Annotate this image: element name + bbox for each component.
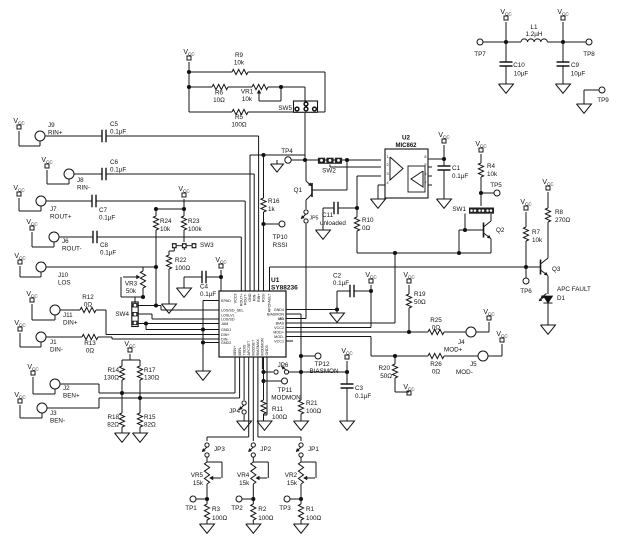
svg-text:JP2: JP2 xyxy=(260,446,271,453)
ground (R21) xyxy=(294,421,309,430)
node junction R7/Q3 base xyxy=(524,265,528,269)
svg-text:R3: R3 xyxy=(212,506,221,513)
svg-text:ROUT+: ROUT+ xyxy=(50,214,72,221)
svg-text:0Ω: 0Ω xyxy=(86,348,95,355)
resistor R16 1k xyxy=(261,155,280,291)
svg-text:3: 3 xyxy=(387,172,389,176)
svg-text:SW1: SW1 xyxy=(452,206,466,213)
svg-text:10µF: 10µF xyxy=(514,71,529,78)
svg-text:TP6: TP6 xyxy=(520,288,532,295)
svg-text:MODMON: MODMON xyxy=(271,395,301,402)
resistor R5 100ohm xyxy=(189,109,293,128)
svg-text:J3: J3 xyxy=(50,410,57,417)
svg-text:APC FAULT: APC FAULT xyxy=(557,286,591,293)
svg-text:0Ω: 0Ω xyxy=(432,325,441,332)
wire MODMON net xyxy=(262,357,263,369)
svg-text:R24: R24 xyxy=(160,218,172,225)
svg-text:JP4: JP4 xyxy=(229,408,240,415)
svg-text:1k: 1k xyxy=(268,206,276,213)
Vcc symbol (J5) xyxy=(488,331,508,356)
svg-text:R12: R12 xyxy=(82,294,94,301)
svg-text:0Ω: 0Ω xyxy=(84,302,93,309)
svg-text:D1: D1 xyxy=(557,295,566,302)
wire Q1 base xyxy=(346,160,348,190)
svg-text:J10: J10 xyxy=(58,272,69,279)
svg-text:RIN+: RIN+ xyxy=(48,130,63,137)
ground (TP4) xyxy=(271,160,284,172)
connector J8 RIN- with Vcc xyxy=(41,157,90,192)
svg-text:TP1: TP1 xyxy=(185,505,197,512)
wire VCC2 net xyxy=(286,291,371,328)
resistor R12 0ohm xyxy=(60,294,106,313)
Vcc symbol (C1) xyxy=(438,132,450,159)
connector J4 MOD+ xyxy=(444,327,476,354)
svg-text:0.1µF: 0.1µF xyxy=(99,215,115,222)
svg-text:BIAS: BIAS xyxy=(276,322,285,326)
ground (JP4) xyxy=(237,421,252,430)
svg-text:15k: 15k xyxy=(193,480,204,487)
svg-text:VCC1: VCC1 xyxy=(274,340,284,344)
resistor R15 82ohm xyxy=(137,413,156,433)
resistor R21 100ohm xyxy=(298,400,321,421)
ground (R11/GND3) xyxy=(257,421,272,430)
svg-text:MOD-: MOD- xyxy=(274,335,285,339)
node junction BIASMON/TP12 xyxy=(299,354,303,358)
svg-text:TP9: TP9 xyxy=(597,97,609,104)
test point TP7 xyxy=(474,39,506,58)
svg-text:C5: C5 xyxy=(110,121,119,128)
resistor R26 0ohm xyxy=(428,353,478,375)
svg-text:100Ω: 100Ω xyxy=(175,265,191,272)
svg-text:TP3: TP3 xyxy=(279,505,291,512)
svg-text:Q1: Q1 xyxy=(294,187,303,194)
svg-text:SW2: SW2 xyxy=(322,168,336,175)
svg-text:RSSI: RSSI xyxy=(273,242,288,249)
svg-text:U1: U1 xyxy=(271,277,280,284)
svg-text:100Ω: 100Ω xyxy=(306,408,322,415)
svg-text:C3: C3 xyxy=(355,385,364,392)
svg-text:R26: R26 xyxy=(430,361,442,368)
svg-text:BIASMAX: BIASMAX xyxy=(256,339,260,356)
wire GND3 xyxy=(264,357,268,415)
inductor L1 1.2uH xyxy=(506,24,563,42)
Vcc symbol (R20) xyxy=(395,384,415,395)
svg-text:C7: C7 xyxy=(99,207,108,214)
svg-text:100Ω: 100Ω xyxy=(231,122,247,129)
node junction VR3/SW4 xyxy=(141,295,145,299)
svg-text:J6: J6 xyxy=(62,238,69,245)
resistor R7 10k xyxy=(523,227,543,267)
svg-text:0Ω: 0Ω xyxy=(362,225,371,232)
wire SW1 to Q2 base xyxy=(464,214,466,231)
svg-text:R11: R11 xyxy=(272,406,284,413)
svg-text:TP8: TP8 xyxy=(583,51,595,58)
ground (TP9) xyxy=(577,104,592,113)
svg-text:C10: C10 xyxy=(513,62,525,69)
connector J7 ROUT+ with Vcc xyxy=(13,185,71,221)
wire SW5 net to U1 xyxy=(250,155,305,291)
resistor R10 0ohm xyxy=(354,217,374,253)
node junction JAM/GND1 xyxy=(144,321,148,325)
svg-text:BEN+: BEN+ xyxy=(63,393,80,400)
node junction C11/R10 xyxy=(355,206,359,210)
svg-text:JP1: JP1 xyxy=(308,446,319,453)
svg-text:R15: R15 xyxy=(144,414,156,421)
wire C4 to ground xyxy=(183,277,185,288)
resistor R18 82ohm xyxy=(107,413,124,433)
svg-text:C8: C8 xyxy=(100,242,109,249)
connector J2 BEN+ with Vcc xyxy=(27,364,80,400)
svg-text:SW4: SW4 xyxy=(115,311,129,318)
svg-text:VR3: VR3 xyxy=(125,281,138,288)
svg-text:VCC3: VCC3 xyxy=(234,294,238,304)
svg-text:J5: J5 xyxy=(470,361,477,368)
wire APCFAULT to U1 xyxy=(269,267,271,291)
svg-text:10k: 10k xyxy=(242,96,253,103)
svg-text:1: 1 xyxy=(387,155,389,159)
svg-text:ROUT-: ROUT- xyxy=(62,246,82,253)
svg-text:GND2: GND2 xyxy=(221,341,231,345)
svg-text:R7: R7 xyxy=(532,229,541,236)
switch SW3 xyxy=(172,242,214,250)
svg-text:VCC2: VCC2 xyxy=(274,326,284,330)
svg-text:C11: C11 xyxy=(322,212,334,219)
wire U2 pin4 to ground xyxy=(378,185,385,199)
svg-text:0.1µF: 0.1µF xyxy=(110,129,126,136)
svg-text:R17: R17 xyxy=(144,367,156,374)
svg-text:100k: 100k xyxy=(188,226,203,233)
node junction GND4 xyxy=(335,307,339,311)
ground (C1) xyxy=(437,199,452,208)
svg-text:R23: R23 xyxy=(188,218,200,225)
svg-text:0.1µF: 0.1µF xyxy=(355,393,371,400)
wire APCFAULT to Q3 base xyxy=(270,266,541,268)
node junction RSSI top xyxy=(261,153,265,157)
capacitor C7 0.1uF xyxy=(46,195,245,222)
jumper JP3 / pot VR5 / TP1 / R3 xyxy=(185,443,227,533)
node junction C4/Vcc xyxy=(219,275,223,279)
IC U1 SY88236 xyxy=(219,277,298,357)
wire SW4 sect2 to U1 LOSLVL xyxy=(138,314,219,319)
ground (C11) xyxy=(316,230,331,239)
svg-text:15k: 15k xyxy=(287,480,298,487)
svg-text:MOD-: MOD- xyxy=(456,369,473,376)
svg-text:Q3: Q3 xyxy=(552,266,561,273)
svg-text:82Ω: 82Ω xyxy=(107,422,119,429)
capacitor C1 0.1uF xyxy=(438,159,469,199)
svg-text:SW3: SW3 xyxy=(200,242,214,249)
svg-text:R19: R19 xyxy=(414,291,426,298)
svg-text:SW5: SW5 xyxy=(278,105,292,112)
svg-text:MD: MD xyxy=(278,317,284,321)
capacitor C2 0.1uF xyxy=(333,273,371,310)
wire BEN+ to U1 xyxy=(60,357,235,393)
svg-text:100Ω: 100Ω xyxy=(258,515,274,522)
ground (U2 pin4) xyxy=(371,199,386,208)
Vcc symbol (R8) xyxy=(542,179,554,208)
wire VR3 to SW4 xyxy=(135,297,143,303)
connector J3 BEN- with Vcc xyxy=(14,392,65,425)
resistor R17 130ohm xyxy=(137,360,159,413)
test point TP11 MODMON xyxy=(264,378,302,402)
wire Vcc to U1 xyxy=(220,277,222,291)
ground (R22) xyxy=(162,304,177,313)
wire BEN- to U1 xyxy=(47,357,240,408)
svg-text:R10: R10 xyxy=(362,217,374,224)
svg-text:APCSET: APCSET xyxy=(247,340,251,356)
connector J5 MOD- xyxy=(456,351,488,376)
svg-text:130Ω: 130Ω xyxy=(144,375,160,382)
svg-text:4: 4 xyxy=(387,181,389,185)
connector J6 ROUT- with Vcc xyxy=(26,219,81,253)
switch SW1 xyxy=(452,206,494,214)
svg-text:J9: J9 xyxy=(48,122,55,129)
svg-text:2: 2 xyxy=(387,163,389,167)
node junction C10/L1 xyxy=(504,40,508,44)
svg-text:MOD+: MOD+ xyxy=(273,331,284,335)
node junction C3 xyxy=(345,370,349,374)
svg-text:1.2µH: 1.2µH xyxy=(526,31,543,38)
svg-text:U2: U2 xyxy=(402,135,411,142)
node junction SW2/Q1 base xyxy=(345,158,349,162)
node junction R4/TP5 xyxy=(479,191,483,195)
wire RIN- bus xyxy=(253,174,255,291)
svg-text:Q2: Q2 xyxy=(496,227,505,234)
svg-text:0.1µF: 0.1µF xyxy=(452,173,468,180)
svg-text:TP4: TP4 xyxy=(281,148,293,155)
svg-text:0.1µF: 0.1µF xyxy=(100,250,116,257)
wire GND1/GND2 to ground xyxy=(203,301,219,372)
svg-text:10Ω: 10Ω xyxy=(213,97,225,104)
svg-text:J2: J2 xyxy=(63,385,70,392)
svg-text:VR5: VR5 xyxy=(191,472,204,479)
test point TP10 RSSI xyxy=(264,221,289,249)
resistor R20 50ohm xyxy=(378,356,397,392)
resistor R22 100ohm xyxy=(166,248,190,304)
node junction BEN-/R15 xyxy=(138,396,142,400)
ground (C10) xyxy=(499,84,514,93)
svg-text:R18: R18 xyxy=(107,414,119,421)
wire GND4 xyxy=(286,309,337,311)
node junction R19/MOD+ xyxy=(407,330,411,334)
Vcc symbol (C10 node) xyxy=(500,9,512,42)
svg-text:0Ω: 0Ω xyxy=(432,369,441,376)
wire MODSET to JP2 xyxy=(252,357,254,441)
node junction BIASMON/JP6 xyxy=(299,370,303,374)
ground (R18) xyxy=(115,433,130,442)
svg-text:J7: J7 xyxy=(50,206,57,213)
wire GND1 net xyxy=(146,324,219,330)
resistor R19 50ohm xyxy=(406,291,426,332)
svg-text:R9: R9 xyxy=(235,52,244,59)
svg-text:ROUT-: ROUT- xyxy=(243,293,247,305)
svg-text:BEN-: BEN- xyxy=(50,418,65,425)
svg-text:10k: 10k xyxy=(487,171,498,178)
ground (D1) xyxy=(541,325,556,334)
test point TP4 xyxy=(281,148,293,163)
jumper JP6 xyxy=(264,362,302,374)
svg-text:10k: 10k xyxy=(160,226,171,233)
node junction VR1 wiper xyxy=(279,85,283,89)
resistor R24 10k xyxy=(153,209,184,267)
test point TP12 BIASMON xyxy=(301,353,339,375)
svg-text:0.1µF: 0.1µF xyxy=(333,280,349,287)
svg-text:SY88236: SY88236 xyxy=(271,285,298,292)
wire R9 to SW5 xyxy=(317,72,325,112)
Vcc symbol (R19) xyxy=(403,272,415,294)
node junction Q2 base xyxy=(463,228,467,232)
svg-text:R20: R20 xyxy=(378,365,390,372)
svg-text:130Ω: 130Ω xyxy=(104,375,120,382)
node junction L1/C9 xyxy=(561,40,565,44)
resistor R25 0ohm xyxy=(428,317,466,335)
resistor R11 100ohm xyxy=(261,400,288,421)
wire R10 bottom bus xyxy=(357,252,486,254)
svg-text:R6: R6 xyxy=(215,90,224,97)
test point TP5 xyxy=(481,182,502,196)
svg-text:LOS/SD: LOS/SD xyxy=(221,318,235,322)
wire ROUT+ bus xyxy=(244,201,246,291)
node junction R20/MOD- xyxy=(393,354,397,358)
node junction JP6 left xyxy=(261,357,265,400)
jumper JP5 xyxy=(301,200,318,223)
test point TP6 xyxy=(520,267,532,295)
test point TP9 xyxy=(584,87,609,104)
svg-text:TP11: TP11 xyxy=(278,387,293,394)
node junction R23 top xyxy=(154,207,186,211)
svg-text:15k: 15k xyxy=(239,480,250,487)
svg-text:R25: R25 xyxy=(430,317,442,324)
capacitor C8 0.1uF xyxy=(59,231,241,257)
svg-text:R14: R14 xyxy=(107,367,119,374)
capacitor C11 unloaded xyxy=(320,202,357,230)
ground (C4) xyxy=(177,288,192,297)
svg-text:MODMON: MODMON xyxy=(261,338,265,356)
node junction GND2 xyxy=(201,340,219,344)
svg-text:TP7: TP7 xyxy=(474,51,486,58)
svg-text:VR2: VR2 xyxy=(285,472,298,479)
svg-text:MOD+: MOD+ xyxy=(444,347,463,354)
node junction SW5 net xyxy=(303,158,307,162)
svg-text:7: 7 xyxy=(424,181,426,185)
svg-text:LOS/SD_SEL: LOS/SD_SEL xyxy=(221,309,244,313)
svg-text:R21: R21 xyxy=(306,400,318,407)
svg-text:J8: J8 xyxy=(77,177,84,184)
resistor R8 270ohm xyxy=(545,208,570,224)
svg-text:TXDIS: TXDIS xyxy=(242,344,246,355)
svg-text:DIN+: DIN+ xyxy=(221,333,230,337)
potentiometer VR3 50k xyxy=(121,267,146,297)
svg-text:GND1: GND1 xyxy=(221,328,231,332)
svg-text:J11: J11 xyxy=(63,312,73,319)
svg-text:J4: J4 xyxy=(458,339,465,346)
wire MOD- net xyxy=(286,337,428,357)
svg-text:R16: R16 xyxy=(268,198,280,205)
svg-text:EPAD: EPAD xyxy=(221,299,231,303)
resistor R14 130ohm xyxy=(104,360,140,413)
ground (C3) xyxy=(340,421,355,430)
connector J9 RIN+ with Vcc xyxy=(13,118,63,146)
svg-text:VR4: VR4 xyxy=(237,472,250,479)
switch SW5 xyxy=(278,101,317,112)
node junction LOS/R24 xyxy=(154,265,158,269)
svg-text:TP5: TP5 xyxy=(490,182,502,189)
svg-text:270Ω: 270Ω xyxy=(555,217,571,224)
wire MOD+ net xyxy=(286,331,428,333)
svg-text:MODSET: MODSET xyxy=(252,339,256,356)
node junction R16/TP10 xyxy=(261,222,265,226)
svg-text:R1: R1 xyxy=(306,506,315,513)
wire SW4 sect3 to U1 JAM xyxy=(138,323,219,325)
svg-text:R8: R8 xyxy=(555,209,564,216)
svg-text:R5: R5 xyxy=(235,114,244,121)
svg-text:DIN-: DIN- xyxy=(50,347,63,354)
Vcc symbol (C9 node) xyxy=(557,9,569,42)
svg-text:0.1µF: 0.1µF xyxy=(110,167,126,174)
svg-text:C2: C2 xyxy=(333,273,342,280)
wire SW5 to TP4 node xyxy=(304,113,306,160)
wire ROUT- bus xyxy=(240,237,242,291)
svg-text:GND4: GND4 xyxy=(274,308,284,312)
capacitor C6 0.1uF xyxy=(74,159,254,180)
wire DIN- to U1 xyxy=(112,337,219,339)
node junction C1/Vcc xyxy=(442,157,446,161)
potentiometer VR1 10k xyxy=(241,84,281,103)
svg-text:C4: C4 xyxy=(200,284,209,291)
Vcc symbol (C3) xyxy=(341,348,353,372)
jumper JP4 xyxy=(229,357,246,421)
wire RIN+ bus xyxy=(258,136,260,291)
svg-text:50k: 50k xyxy=(126,288,137,295)
node junction Vcc/R9 xyxy=(187,70,191,74)
svg-text:10k: 10k xyxy=(532,237,543,244)
connector J11 DIN+ with Vcc xyxy=(26,291,78,327)
connector J1 DIN- with Vcc xyxy=(14,320,63,354)
svg-text:BEN+: BEN+ xyxy=(233,346,237,356)
svg-text:100Ω: 100Ω xyxy=(212,515,228,522)
jumper JP1 / pot VR2 / TP3 / R1 xyxy=(279,443,321,533)
svg-text:RIN-: RIN- xyxy=(252,293,256,301)
capacitor C10 10uF xyxy=(500,42,529,84)
svg-text:RIN+: RIN+ xyxy=(257,294,261,303)
wire Q2 base to bus xyxy=(458,230,460,253)
node junction R10/BIAS xyxy=(393,251,397,255)
capacitor C4 0.1uF xyxy=(184,271,221,298)
Vcc symbol (C4) xyxy=(215,257,227,277)
svg-text:JP6: JP6 xyxy=(278,362,289,369)
wire C3/JP6 net xyxy=(301,371,347,373)
node junction R10/Q2 xyxy=(457,251,461,255)
svg-text:MIC862: MIC862 xyxy=(395,143,417,149)
svg-text:DIN+: DIN+ xyxy=(63,320,78,327)
node junction Vcc/R6 xyxy=(187,85,191,89)
wire TP4 to U2 pin1 xyxy=(291,159,381,161)
ground (U1 GND1/GND2) xyxy=(196,371,211,380)
wire U2 pin3 to R10 xyxy=(357,176,381,217)
svg-text:L1: L1 xyxy=(530,24,538,31)
svg-text:8: 8 xyxy=(424,155,426,159)
wire APCSET to JP3 xyxy=(207,357,249,441)
wire BIASMON net xyxy=(286,314,301,400)
resistor R13 0ohm xyxy=(46,334,112,354)
svg-text:TP12: TP12 xyxy=(314,361,330,368)
svg-text:0.1µF: 0.1µF xyxy=(200,291,216,298)
Vcc symbol (C2) xyxy=(365,272,377,291)
transistor Q3 xyxy=(541,222,561,294)
svg-text:TP2: TP2 xyxy=(231,505,243,512)
wire VR1 to SW5 xyxy=(281,87,305,102)
jumper JP2 / pot VR4 / TP2 / R2 xyxy=(231,443,274,533)
